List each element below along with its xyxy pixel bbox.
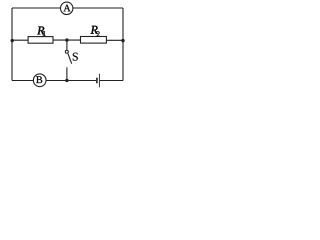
node: bottom junction <box>65 79 68 82</box>
wire: middle rail from R2 to right rail <box>106 39 123 41</box>
bell B <box>33 74 46 87</box>
label R2 <box>91 26 100 37</box>
battery cell: short thick negative plate <box>96 78 98 84</box>
wire: top rail left segment <box>12 7 61 9</box>
resistor R1 <box>28 37 53 44</box>
wire: bottom rail from bell B to battery <box>46 80 96 82</box>
wire: left rail <box>11 8 13 81</box>
node: left junction <box>11 39 14 42</box>
node: middle junction on middle rail <box>65 38 68 41</box>
wire: bottom rail left segment <box>12 80 34 82</box>
label R1 <box>37 27 45 36</box>
label S <box>73 53 78 61</box>
wire: bottom rail from battery to right rail <box>100 80 123 82</box>
ammeter A <box>60 2 72 14</box>
wire: middle rail from R1 to R2 <box>53 39 81 41</box>
wire: middle rail from left rail to R1 <box>12 39 28 41</box>
wire: right rail <box>122 8 124 81</box>
resistor R2 <box>81 37 107 44</box>
node: right junction <box>121 39 124 42</box>
battery cell: long thin positive plate <box>98 74 100 88</box>
switch S <box>65 40 71 64</box>
wire: switch to bottom rail <box>66 67 68 80</box>
wire: top rail right segment <box>73 7 123 9</box>
